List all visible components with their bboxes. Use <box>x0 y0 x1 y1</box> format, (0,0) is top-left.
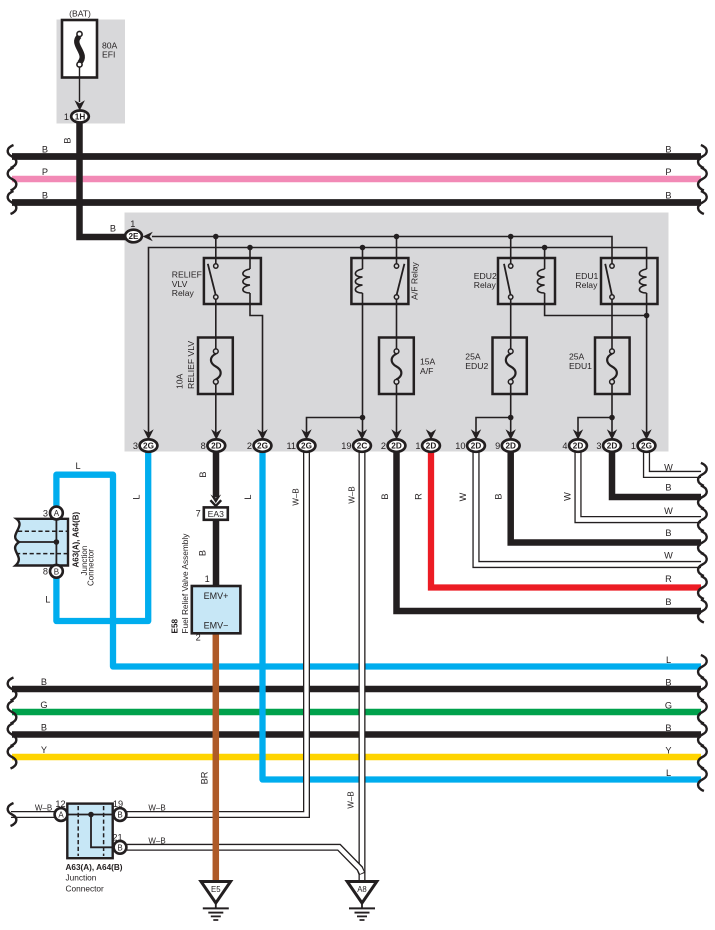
svg-text:2D: 2D <box>471 442 482 451</box>
fuse F2 15A A/F <box>379 338 414 395</box>
svg-text:W: W <box>664 551 673 561</box>
bus wire Y bottom <box>12 754 701 760</box>
svg-text:B: B <box>665 528 671 538</box>
wire A/F fuse to connector 2 2D <box>396 384 398 433</box>
relay U3 EDU2 Relay <box>498 258 555 304</box>
connector pin 10 2D <box>455 429 485 452</box>
wire B from EA3 to EMV <box>213 520 220 587</box>
svg-text:W–B: W–B <box>148 804 165 813</box>
wire W from connector 4 2D down then right <box>578 450 701 520</box>
wire W from connector 10 2D down then right <box>476 450 701 565</box>
ground A8 <box>347 882 377 921</box>
svg-text:Relay: Relay <box>474 280 497 290</box>
svg-text:A/F Relay: A/F Relay <box>409 261 419 299</box>
svg-text:W: W <box>664 462 673 472</box>
wire RELIEF coil to connector 2 2G <box>250 293 263 433</box>
svg-text:W: W <box>664 506 673 516</box>
svg-text:EMV+: EMV+ <box>204 591 229 601</box>
pin A 12 <box>55 808 68 821</box>
wire L blue from connector 3 2G down to junction B <box>56 450 148 621</box>
connector pin 2 2G <box>247 429 272 452</box>
brace left y=814.5 <box>8 803 17 826</box>
junction dots on bus2 <box>247 245 253 251</box>
brace left y=757 <box>8 746 17 769</box>
connector 2E (relay box input) <box>110 219 153 242</box>
brace left y=734.5 <box>8 723 17 746</box>
pin B 19 <box>114 808 127 821</box>
wire EDU2 fuse to connectors 10 2D and 9 2D <box>476 384 511 433</box>
bus wire B bottom2 <box>12 731 701 737</box>
fuse F3 25A EDU2 <box>493 338 527 395</box>
svg-text:G: G <box>665 701 672 711</box>
svg-text:1: 1 <box>631 441 636 451</box>
wire EDU2 coil to EDU1 coil junction <box>545 293 647 316</box>
wire L blue from connector 2 2G down then right <box>263 450 702 780</box>
connector pin 4 2D <box>562 429 587 452</box>
brace right y=179 <box>698 168 707 191</box>
wire R red from connector 1 2D down then right <box>431 450 701 588</box>
connector 1H (fuse output) <box>64 100 89 122</box>
wire A/F switch to fuse <box>396 299 398 349</box>
wire bus1 tap to EDU2 relay switch <box>510 237 512 264</box>
svg-text:3: 3 <box>43 508 48 518</box>
relay U1 RELIEF VLV Relay <box>204 258 261 304</box>
fuse panel (BAT) background <box>57 20 126 124</box>
svg-text:A: A <box>58 811 64 820</box>
pin A 3 <box>50 507 63 520</box>
junction dot EDU2 branch <box>508 415 514 421</box>
brace right y=497 <box>698 486 707 509</box>
brace right y=587.5 <box>698 576 707 599</box>
brace left y=712 <box>8 701 17 724</box>
brace left y=156.5 <box>8 145 17 168</box>
svg-text:A: A <box>54 509 60 518</box>
svg-text:Connector: Connector <box>87 549 96 586</box>
brace left y=179 <box>8 168 17 191</box>
svg-text:12: 12 <box>55 799 65 809</box>
svg-text:R: R <box>665 574 672 584</box>
svg-text:L: L <box>75 461 80 471</box>
svg-text:B: B <box>665 723 671 733</box>
svg-text:B: B <box>493 493 503 499</box>
svg-text:2D: 2D <box>211 442 222 451</box>
wire EDU2 switch to fuse <box>510 299 512 349</box>
svg-text:3: 3 <box>596 441 601 451</box>
svg-text:G: G <box>40 700 47 710</box>
connector EA3 with chevrons <box>196 494 228 519</box>
wire bus1 from 2E to EDU1 relay switch <box>152 237 612 264</box>
svg-text:B: B <box>110 224 116 234</box>
svg-text:2D: 2D <box>505 442 516 451</box>
wire bus1 tap to RELIEF relay switch <box>215 237 217 264</box>
svg-text:B: B <box>117 844 122 853</box>
wire bus2 tap to RELIEF relay coil <box>249 248 251 270</box>
wire B from fuse 1H to 2E <box>80 121 126 237</box>
svg-text:Relay: Relay <box>575 280 598 290</box>
svg-text:R: R <box>413 493 423 500</box>
wire W from connector 1 2G down then right <box>647 450 702 474</box>
svg-text:EMV−: EMV− <box>204 620 229 630</box>
wire W-B from connector 19 2C down to ground A8 <box>359 450 366 880</box>
svg-text:2: 2 <box>381 441 386 451</box>
svg-text:P: P <box>42 167 48 177</box>
fuse 80A EFI (fusible link) <box>62 20 97 102</box>
svg-text:B: B <box>665 483 671 493</box>
connector pin 1 2G <box>631 429 656 452</box>
svg-text:B: B <box>41 723 47 733</box>
svg-text:10: 10 <box>455 441 465 451</box>
svg-text:W–B: W–B <box>148 836 165 845</box>
brace right y=611 <box>698 600 707 623</box>
svg-text:L: L <box>45 595 50 605</box>
relay U2 A/F Relay <box>351 258 408 304</box>
svg-text:Connector: Connector <box>66 884 105 894</box>
wire bus2 tap to EDU2 relay coil <box>544 248 546 270</box>
svg-text:Relay: Relay <box>172 288 195 298</box>
brace right y=712 <box>698 701 707 724</box>
wire bus2 tap to A/F relay coil <box>362 248 364 270</box>
brace right y=519.6 <box>698 508 707 531</box>
fuse F1 10A RELIEF VLV <box>198 338 233 395</box>
brace right y=156.5 <box>698 145 707 168</box>
svg-text:Y: Y <box>665 746 671 756</box>
brace left y=202.5 <box>8 191 17 214</box>
svg-text:9: 9 <box>495 441 500 451</box>
connector pin 1 2D <box>415 429 440 452</box>
svg-text:B: B <box>41 677 47 687</box>
svg-text:3: 3 <box>133 441 138 451</box>
junction dot A/F coil branch <box>360 415 366 421</box>
svg-text:L: L <box>666 655 671 665</box>
brace right y=689 <box>698 678 707 701</box>
wire B from connector 3 2D down then right <box>612 450 701 497</box>
svg-text:EFI: EFI <box>102 50 115 60</box>
svg-text:2D: 2D <box>607 442 618 451</box>
wire RELIEF switch to fuse <box>215 299 217 349</box>
svg-text:EA3: EA3 <box>208 509 224 519</box>
pin B 8 <box>50 565 63 578</box>
connector pin 19 2C <box>341 429 371 452</box>
svg-text:E58: E58 <box>171 618 180 633</box>
wire L blue from junction A up over to bus L <box>56 475 701 667</box>
bus wire P top <box>12 176 701 183</box>
svg-text:A8: A8 <box>357 885 367 894</box>
junction connector A63(A) A64(B) bottom <box>55 799 127 894</box>
connector pin 8 2D <box>201 429 226 452</box>
svg-text:B: B <box>54 568 59 577</box>
junction dot EDU1 branch <box>609 415 615 421</box>
wire B from connector 8 2D to EA3 <box>213 450 220 498</box>
svg-text:W–B: W–B <box>347 486 356 503</box>
svg-text:21: 21 <box>112 832 122 842</box>
svg-text:(BAT): (BAT) <box>69 9 91 19</box>
svg-text:BR: BR <box>200 771 210 784</box>
svg-text:EDU2: EDU2 <box>465 361 488 371</box>
svg-text:A63(A), A64(B): A63(A), A64(B) <box>66 863 123 872</box>
svg-text:8: 8 <box>43 567 48 577</box>
svg-text:B: B <box>665 191 671 201</box>
wire EDU1 fuse to connectors 4 2D and 3 2D <box>578 384 612 433</box>
svg-text:L: L <box>132 494 142 499</box>
connector pin 9 2D <box>495 429 520 452</box>
svg-text:B: B <box>198 471 208 477</box>
svg-text:A/F: A/F <box>420 366 433 376</box>
connector pin 3 2D <box>596 429 621 452</box>
svg-text:2G: 2G <box>301 442 312 451</box>
wire W-B from connector 11 2G down to junction B19 <box>127 450 307 815</box>
wire BR brown from EMV to ground E5 <box>213 633 220 881</box>
wire EDU1 coil to connector 1 2G <box>646 293 648 433</box>
svg-text:8: 8 <box>201 441 206 451</box>
svg-text:B: B <box>665 678 671 688</box>
svg-text:E5: E5 <box>211 885 221 894</box>
connector pin 2 2D <box>381 429 406 452</box>
svg-text:W–B: W–B <box>291 488 300 505</box>
svg-text:2D: 2D <box>426 442 437 451</box>
svg-text:7: 7 <box>196 509 201 519</box>
bus wire B top1 <box>12 153 701 160</box>
connector pin 11 2G <box>286 429 315 452</box>
wire B from connector 9 2D down then right <box>511 450 701 543</box>
brace right y=757 <box>698 746 707 769</box>
svg-text:2G: 2G <box>641 442 652 451</box>
svg-text:2G: 2G <box>257 442 268 451</box>
brace right y=542.5 <box>698 531 707 554</box>
junction dot coil cross EDU1 <box>644 313 650 319</box>
svg-text:W–B: W–B <box>35 804 52 813</box>
wire W-B from junction B21 merging to ground A8 <box>127 847 362 874</box>
svg-text:2D: 2D <box>391 442 402 451</box>
wire EDU1 switch to fuse <box>611 299 613 349</box>
svg-text:B: B <box>117 811 122 820</box>
bus wire G bottom <box>12 709 701 715</box>
svg-text:19: 19 <box>341 441 351 451</box>
brace right y=202.5 <box>698 191 707 214</box>
junction connector A63(A) A64(B) middle <box>15 507 96 586</box>
svg-text:RELIEF VLV: RELIEF VLV <box>186 341 196 389</box>
wire bus1 tap to A/F relay switch <box>396 237 398 264</box>
brace left y=689 <box>8 678 17 701</box>
svg-text:11: 11 <box>286 441 296 451</box>
svg-text:2D: 2D <box>573 442 584 451</box>
svg-text:19: 19 <box>113 799 123 809</box>
svg-text:B: B <box>665 597 671 607</box>
svg-text:B: B <box>63 137 73 143</box>
brace right y=779.5 <box>698 768 707 791</box>
bus wire B top2 <box>12 199 701 206</box>
pin B 21 <box>114 841 127 854</box>
svg-text:Fuel Relief Valve Assembly: Fuel Relief Valve Assembly <box>180 533 190 634</box>
svg-text:B: B <box>197 550 207 556</box>
svg-text:2G: 2G <box>143 442 154 451</box>
svg-text:W–B: W–B <box>346 791 355 808</box>
svg-text:2E: 2E <box>128 232 139 241</box>
svg-text:2: 2 <box>247 441 252 451</box>
wire A/F coil to connectors 11 2G and 19 2C <box>307 293 363 433</box>
fuse F4 25A EDU1 <box>595 338 630 395</box>
svg-text:1H: 1H <box>75 113 86 122</box>
svg-text:B: B <box>42 191 48 201</box>
junction dots on bus1 <box>213 234 649 421</box>
svg-text:B: B <box>42 145 48 155</box>
svg-text:W: W <box>458 492 468 501</box>
svg-text:2C: 2C <box>357 442 368 451</box>
brace right y=564.5 <box>698 553 707 576</box>
svg-text:B: B <box>380 493 390 499</box>
svg-text:1: 1 <box>415 441 420 451</box>
svg-text:P: P <box>665 167 671 177</box>
svg-text:Junction: Junction <box>66 873 97 883</box>
wire bus2 to EDU1 relay coil <box>149 248 647 434</box>
svg-text:W: W <box>562 492 572 501</box>
svg-text:EDU1: EDU1 <box>569 361 592 371</box>
brace right y=734.5 <box>698 723 707 746</box>
bus wire B bottom1 <box>12 686 701 692</box>
E58 Fuel Relief Valve Assembly (EMV) <box>171 533 241 643</box>
svg-text:2: 2 <box>196 632 201 642</box>
wire RELIEF fuse to connector 8 2D <box>215 384 217 433</box>
relay box panel <box>125 213 669 452</box>
wire B from connector 2 2D down then right <box>397 450 702 611</box>
svg-text:1: 1 <box>64 112 69 122</box>
svg-text:1: 1 <box>130 219 135 229</box>
wire W-B stub at left edge to junction A pin 12 <box>11 811 55 818</box>
svg-text:L: L <box>666 768 671 778</box>
svg-text:10A: 10A <box>175 373 185 389</box>
svg-text:4: 4 <box>562 441 567 451</box>
svg-text:Y: Y <box>41 745 47 755</box>
connector pin 3 2G <box>133 429 158 452</box>
brace right y=666.5 <box>698 655 707 678</box>
svg-text:B: B <box>665 145 671 155</box>
svg-text:L: L <box>243 494 253 499</box>
svg-text:1: 1 <box>205 574 210 584</box>
ground E5 <box>201 882 231 921</box>
relay U4 EDU1 Relay <box>601 258 658 304</box>
brace right y=474.4 <box>698 463 707 486</box>
